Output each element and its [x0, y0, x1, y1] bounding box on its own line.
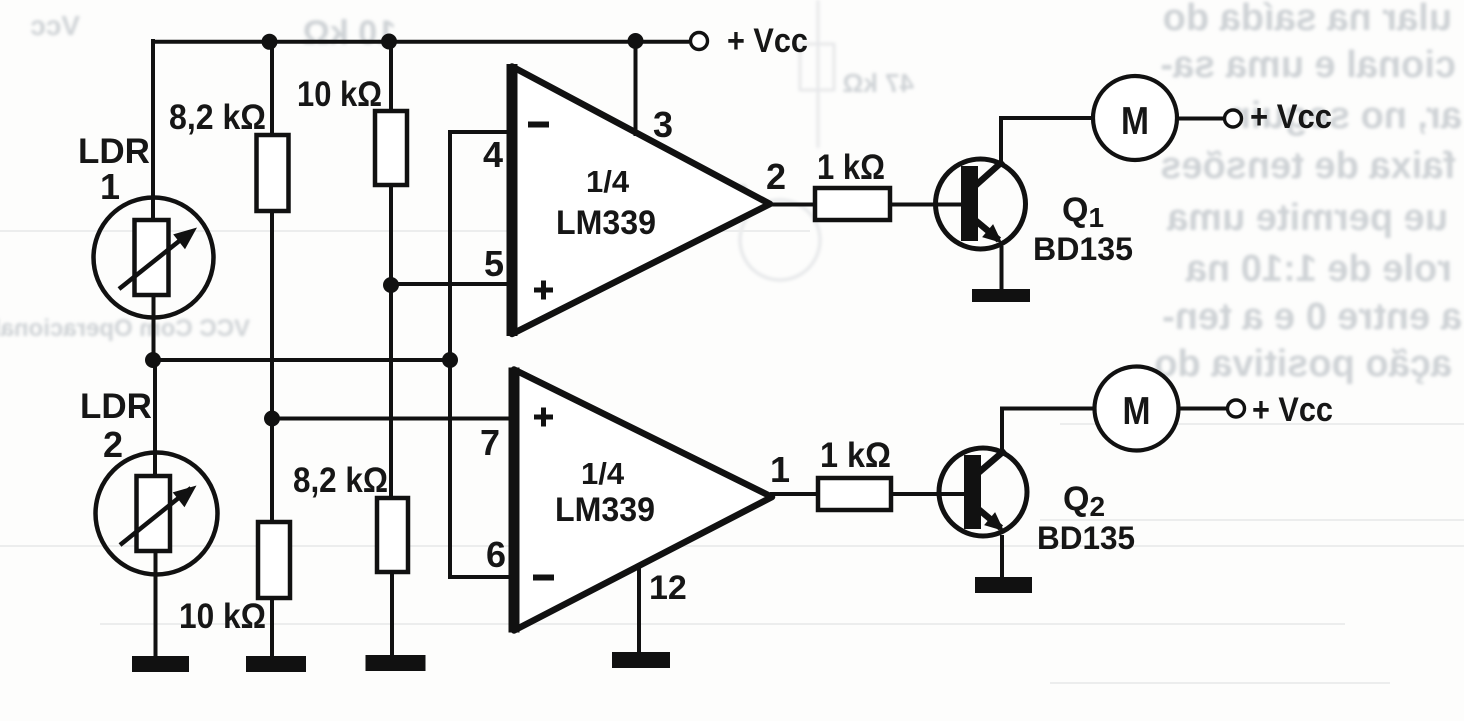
label BD135 bottom: [1037, 520, 1135, 556]
wire Q1 emitter: [1000, 246, 1004, 291]
svg-text:12: 12: [649, 569, 687, 607]
node mid rail to comparators: [442, 352, 458, 368]
ground R3: [246, 656, 306, 672]
label 8,2 kOhm top: [169, 98, 266, 137]
terminal +Vcc M2: [1228, 400, 1245, 417]
wire R2 to R4 column: [389, 185, 393, 498]
svg-text:LM339: LM339: [555, 491, 655, 529]
wire Q2 emitter: [1000, 535, 1004, 579]
svg-text:1 kΩ: 1 kΩ: [817, 148, 885, 187]
svg-text:VCC Com Operacional: VCC Com Operacional: [0, 315, 250, 342]
svg-text:ue permite uma: ue permite uma: [1166, 197, 1448, 239]
wire pin 6: [448, 575, 514, 579]
label 10 kOhm bottom: [179, 597, 266, 636]
svg-text:Q2: Q2: [1063, 480, 1105, 522]
wire Q2 collector: [1002, 409, 1095, 452]
svg-text:ular na saída do: ular na saída do: [1163, 0, 1452, 39]
wire Q1 collector: [1001, 118, 1095, 163]
terminal +Vcc M1: [1225, 110, 1242, 127]
wire R6 to Q2 base: [891, 492, 965, 496]
wire LDR1 bottom: [152, 294, 156, 360]
svg-text:5: 5: [484, 243, 504, 284]
svg-text:1 kΩ: 1 kΩ: [820, 436, 891, 475]
wire mid rail: [153, 358, 450, 362]
ground LDR2: [132, 656, 189, 672]
node top rail / R2: [381, 34, 397, 50]
svg-text:ação positiva do: ação positiva do: [1154, 343, 1452, 385]
label pin 6: [486, 534, 506, 575]
svg-text:10 kΩ: 10 kΩ: [303, 14, 396, 52]
wire LDR2 top: [153, 360, 157, 477]
svg-text:3: 3: [653, 104, 673, 145]
transistor Q2: [939, 448, 1027, 536]
svg-text:a entre 0 e a ten-: a entre 0 e a ten-: [1162, 296, 1462, 338]
node LDR midpoint: [145, 352, 161, 368]
svg-text:2: 2: [103, 424, 123, 465]
wire comparator inputs vertical: [448, 132, 452, 577]
svg-text:10 kΩ: 10 kΩ: [179, 597, 266, 636]
op-amp U2 (1/4 LM339 bottom): [514, 368, 772, 633]
svg-text:47 kΩ: 47 kΩ: [843, 68, 914, 98]
svg-text:M: M: [1121, 100, 1149, 143]
wire pin 4: [448, 130, 512, 134]
label 1 kOhm bottom: [820, 436, 891, 475]
svg-text:1: 1: [770, 449, 790, 490]
label LDR 2: [80, 387, 152, 465]
wire M2 to terminal: [1178, 407, 1228, 411]
label pin 3: [653, 104, 673, 145]
wire LDR2 bottom: [154, 550, 158, 659]
svg-text:1: 1: [100, 166, 120, 207]
node top rail / pin 3: [628, 33, 644, 49]
op-amp U1 (1/4 LM339 top): [512, 64, 770, 336]
wire R2 top: [389, 41, 393, 112]
LDR LDR1: [94, 198, 214, 318]
label pin 12: [649, 569, 687, 607]
label +Vcc M1: [1250, 98, 1332, 136]
svg-text:+ Vcc: + Vcc: [1250, 98, 1332, 136]
svg-text:8,2 kΩ: 8,2 kΩ: [169, 98, 266, 137]
wire R4 bottom: [390, 572, 394, 657]
label LDR 1: [78, 132, 150, 207]
svg-text:10 kΩ: 10 kΩ: [297, 75, 382, 114]
svg-text:7: 7: [480, 422, 500, 463]
ground Q2: [975, 577, 1032, 593]
svg-text:1/4: 1/4: [586, 164, 630, 199]
svg-text:4: 4: [483, 134, 503, 175]
terminal +Vcc top: [691, 33, 708, 50]
label pin 2: [766, 156, 786, 197]
motor M2: [1095, 367, 1179, 451]
wire R3 bottom: [270, 598, 274, 657]
svg-text:8,2 kΩ: 8,2 kΩ: [293, 461, 388, 500]
svg-text:LM339: LM339: [556, 204, 656, 242]
wire LDR1 top: [151, 39, 155, 221]
svg-text:cional e uma sa-: cional e uma sa-: [1160, 44, 1456, 86]
ground pin 12: [612, 652, 670, 668]
label BD135 top: [1033, 231, 1133, 267]
wire U1 output: [768, 203, 815, 207]
ground R4: [366, 655, 426, 671]
label 1 kOhm top: [817, 148, 885, 187]
wire R1 to R3 column: [270, 211, 274, 522]
svg-text:Q1: Q1: [1062, 191, 1104, 233]
wire pin 5: [391, 282, 512, 286]
wire R1 top: [270, 41, 274, 136]
label pin 5: [484, 243, 504, 284]
wire M1 to terminal: [1176, 117, 1225, 121]
label Q1: [1062, 191, 1104, 233]
node pin 5 tap: [383, 277, 399, 293]
svg-text:BD135: BD135: [1033, 231, 1133, 267]
label Q2: [1063, 480, 1105, 522]
label 8,2 kOhm bottom: [293, 461, 388, 500]
svg-text:+ Vcc: + Vcc: [727, 22, 808, 60]
svg-text:6: 6: [486, 534, 506, 575]
LDR LDR2: [96, 453, 218, 575]
svg-text:1/4: 1/4: [581, 456, 625, 491]
resistor R3 10 kOhm bottom: [258, 522, 290, 598]
wire +Vcc top rail: [151, 40, 689, 44]
resistor R4 8,2 kOhm bottom: [377, 498, 408, 572]
wire pin 3: [634, 40, 638, 136]
svg-text:2: 2: [766, 156, 786, 197]
svg-text:+ Vcc: + Vcc: [1252, 391, 1333, 429]
label +Vcc M2: [1252, 391, 1333, 429]
resistor R1 8,2 kOhm top: [257, 135, 289, 211]
transistor Q1: [936, 159, 1026, 249]
label pin 4: [483, 134, 503, 175]
node pin 7 tap: [264, 411, 280, 427]
label pin 1: [770, 449, 790, 490]
label pin 7: [480, 422, 500, 463]
svg-text:Vcc: Vcc: [30, 10, 80, 41]
motor M1: [1093, 76, 1177, 160]
wire R5 to Q1 base: [890, 203, 962, 207]
wire pin 7: [272, 417, 514, 421]
ground Q1: [972, 289, 1030, 302]
wire pin 12: [637, 567, 641, 656]
svg-text:BD135: BD135: [1037, 520, 1135, 556]
resistor R2 10 kOhm top: [375, 111, 407, 185]
label 10 kOhm top: [297, 75, 382, 114]
wire U2 output: [770, 492, 818, 496]
resistor R5 1 kOhm top: [815, 188, 890, 220]
resistor R6 1 kOhm bottom: [818, 478, 891, 510]
svg-text:role de 1:10 na: role de 1:10 na: [1185, 248, 1452, 290]
svg-text:M: M: [1123, 390, 1151, 433]
svg-text:faixa de tensões: faixa de tensões: [1160, 145, 1456, 187]
node top rail / R1: [262, 34, 278, 50]
label +Vcc top: [727, 22, 808, 60]
svg-text:LDR: LDR: [80, 387, 152, 426]
